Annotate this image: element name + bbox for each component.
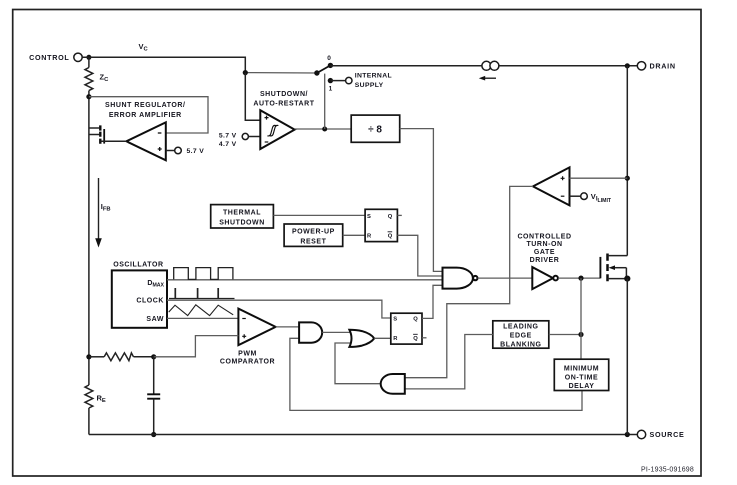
svg-text:SAW: SAW <box>146 316 164 323</box>
wire source vertical <box>626 279 628 435</box>
node IFB current arrow <box>95 178 110 248</box>
svg-text:Q: Q <box>388 214 393 220</box>
wire LEB right to gate node <box>549 334 581 336</box>
svg-text:DRAIN: DRAIN <box>650 62 676 71</box>
wire OR output to latch R <box>374 337 391 339</box>
svg-text:RESET: RESET <box>300 239 326 246</box>
op-amp U1 shunt regulator / error amplifier <box>105 102 186 160</box>
gate AND2 blanking (left facing) <box>381 374 405 394</box>
wire DMAX line <box>167 279 443 281</box>
svg-text:GATE: GATE <box>534 249 555 256</box>
svg-text:0: 0 <box>327 55 331 62</box>
wire divide-by-8 output <box>400 129 443 272</box>
wire thermal to latch S <box>273 214 365 216</box>
latch U3 SR latch upper <box>365 209 397 241</box>
svg-text:DRIVER: DRIVER <box>530 257 560 264</box>
wire comparator output to divide-by-8 <box>295 128 352 130</box>
svg-text:BLANKING: BLANKING <box>500 341 541 348</box>
svg-text:POWER-UP: POWER-UP <box>292 228 335 235</box>
block minimum on-time delay <box>554 359 608 390</box>
wire LEB left to blanking AND <box>405 335 493 389</box>
svg-text:SOURCE: SOURCE <box>650 430 685 439</box>
wire switch common vertical <box>324 74 326 129</box>
svg-text:Q: Q <box>413 317 418 323</box>
capacitor C1 <box>147 357 160 437</box>
resistor ZC <box>85 68 93 91</box>
svg-text:SHUNT REGULATOR/: SHUNT REGULATOR/ <box>105 102 186 109</box>
svg-text:CONTROLLED: CONTROLLED <box>517 233 571 240</box>
node SOURCE terminal <box>637 430 684 439</box>
block divide-by-8 counter <box>351 115 400 142</box>
node DRAIN terminal <box>637 62 675 71</box>
wire 5.7V reference to + input <box>166 150 175 152</box>
svg-text:PWM: PWM <box>238 350 257 357</box>
wire CLOCK line to latch S <box>167 300 391 318</box>
node INTERNAL SUPPLY <box>330 73 392 90</box>
wire min-delay to AND input <box>290 338 582 410</box>
svg-text:AUTO-RESTART: AUTO-RESTART <box>253 100 314 107</box>
svg-text:S: S <box>393 317 397 323</box>
svg-text:SHUTDOWN: SHUTDOWN <box>219 219 265 226</box>
latch U5 SR latch lower <box>391 313 422 344</box>
op-amp U2 shutdown/auto-restart comparator <box>253 91 314 149</box>
wire NAND output to driver <box>478 277 533 279</box>
gate AND1 <box>299 322 322 342</box>
wire left bus upper <box>88 57 90 67</box>
svg-text:ON-TIME: ON-TIME <box>565 374 598 381</box>
wire latch U3 Q stub <box>397 214 401 216</box>
svg-text:DELAY: DELAY <box>569 383 595 390</box>
svg-text:EDGE: EDGE <box>510 332 532 339</box>
waveform sawtooth <box>169 305 234 316</box>
wire SAW line <box>167 317 238 319</box>
transistor Q1 shunt MOSFET <box>89 125 127 143</box>
wire AND1 output <box>322 331 351 333</box>
wire gate node vertical <box>580 278 582 359</box>
wire latch U3 Qbar to NAND <box>397 235 442 276</box>
wire ILIMIT output path <box>405 186 533 377</box>
wire VC top run <box>82 57 245 72</box>
current source CS1 <box>479 61 499 80</box>
wire VC to switch run <box>245 72 317 74</box>
wire latch U5 Q to NAND <box>422 285 443 318</box>
svg-text:COMPARATOR: COMPARATOR <box>220 359 275 366</box>
svg-text:SHUTDOWN/: SHUTDOWN/ <box>260 91 308 98</box>
wire supply line to drain <box>498 65 637 67</box>
svg-text:PI-1935-091698: PI-1935-091698 <box>641 467 694 474</box>
svg-text:5.7 V: 5.7 V <box>219 133 237 140</box>
waveform DMAX square wave <box>174 268 233 280</box>
wire feedback node run <box>86 336 238 361</box>
svg-text:INTERNAL: INTERNAL <box>355 73 392 80</box>
svg-text:LEADING: LEADING <box>503 324 538 331</box>
wire comparator plus input <box>245 73 260 121</box>
wire ILIMIT plus input to drain <box>570 177 628 179</box>
gate NAND1 <box>443 268 478 289</box>
waveform clock pulses <box>169 288 235 299</box>
svg-text:÷ 8: ÷ 8 <box>368 124 382 135</box>
block oscillator <box>112 262 167 328</box>
node 5.7 V reference <box>175 147 182 154</box>
driver U7 controlled turn-on gate driver <box>517 233 571 289</box>
svg-text:1: 1 <box>329 86 333 93</box>
wire PWM comparator output <box>276 326 300 328</box>
resistor feedback R <box>104 353 133 361</box>
node junction shunt tap <box>86 94 91 99</box>
svg-text:SUPPLY: SUPPLY <box>355 82 384 89</box>
svg-text:S: S <box>367 214 371 220</box>
wire top supply line <box>330 65 482 67</box>
wire drain vertical <box>626 66 628 256</box>
gate OR1 <box>349 330 374 347</box>
node VILIMIT reference <box>570 192 612 204</box>
svg-text:ERROR AMPLIFIER: ERROR AMPLIFIER <box>109 112 182 119</box>
wire source bottom run <box>89 434 637 436</box>
svg-text:4.7 V: 4.7 V <box>219 141 237 148</box>
wire left bus middle <box>88 91 90 385</box>
wire driver output to gate <box>558 277 600 279</box>
svg-text:Q: Q <box>413 336 418 342</box>
svg-text:OSCILLATOR: OSCILLATOR <box>113 262 163 269</box>
wire blanking AND output to OR <box>335 343 381 384</box>
op-amp U4 PWM comparator <box>220 309 276 366</box>
node 5.7/4.7 V reference <box>219 133 260 149</box>
node CONTROL terminal <box>29 53 91 62</box>
svg-text:CONTROL: CONTROL <box>29 53 69 62</box>
op-amp U6 current limit comparator <box>533 167 570 205</box>
svg-text:5.7 V: 5.7 V <box>187 148 205 155</box>
resistor RE <box>85 385 106 435</box>
wire shunt feedback path <box>89 97 208 133</box>
block thermal shutdown <box>211 205 274 228</box>
wire latch U5 Qbar stub <box>422 337 427 339</box>
svg-text:CLOCK: CLOCK <box>136 298 164 305</box>
svg-text:Q: Q <box>388 234 393 240</box>
switch SW1 internal supply select <box>314 55 333 93</box>
wire power-up reset to latch R <box>343 234 365 236</box>
block power-up reset <box>284 224 343 246</box>
svg-text:TURN-ON: TURN-ON <box>526 241 562 248</box>
svg-text:MINIMUM: MINIMUM <box>564 365 599 372</box>
block leading edge blanking <box>493 321 549 349</box>
svg-text:THERMAL: THERMAL <box>223 210 261 217</box>
transistor Q2 output MOSFET <box>600 254 630 282</box>
